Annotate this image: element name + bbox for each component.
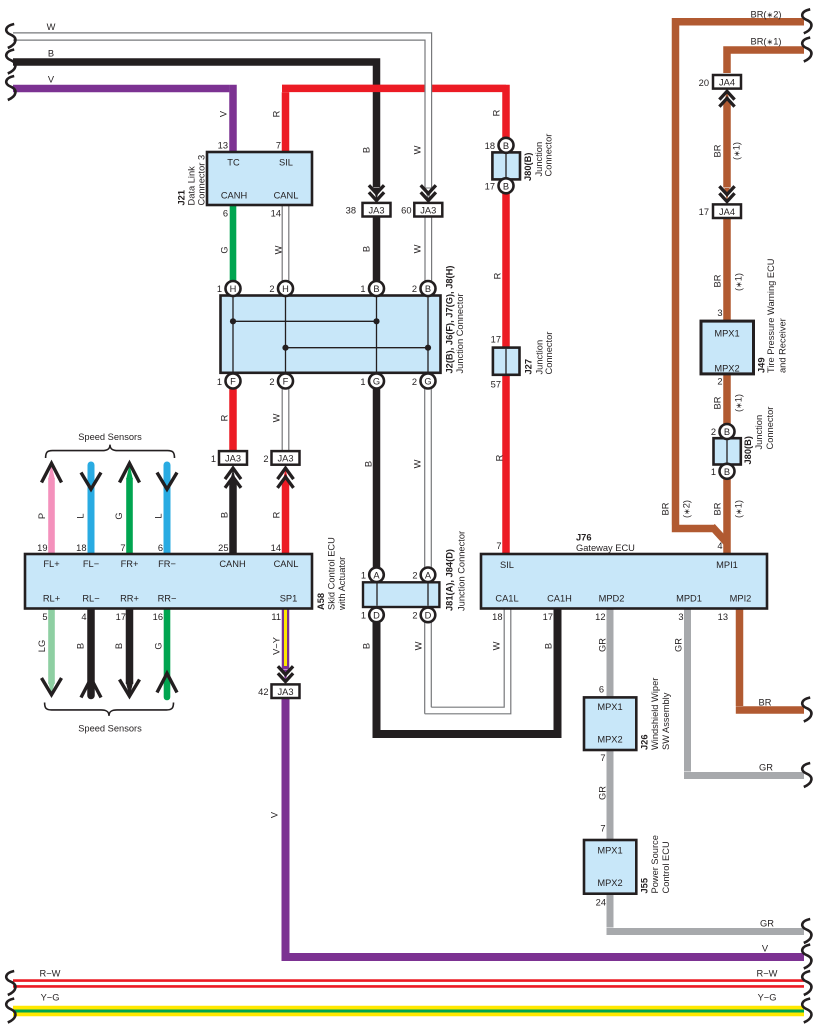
svg-text:7: 7 [276,141,281,151]
svg-text:F: F [230,377,236,387]
svg-text:J21: J21 [177,190,187,206]
svg-text:G: G [114,512,124,519]
svg-text:J80(B): J80(B) [523,153,533,181]
svg-text:Y−G: Y−G [758,993,777,1003]
svg-text:W: W [272,413,282,422]
svg-text:W: W [414,641,424,650]
svg-text:12: 12 [595,612,605,622]
svg-text:SIL: SIL [279,158,293,168]
svg-text:Connector: Connector [765,407,775,450]
svg-text:25: 25 [218,543,228,553]
svg-text:B: B [220,512,230,518]
svg-text:20: 20 [699,78,709,88]
svg-text:1: 1 [360,377,365,387]
svg-text:L: L [154,513,164,518]
svg-text:BR(∗2): BR(∗2) [751,10,782,20]
svg-text:R: R [220,414,230,421]
svg-text:Data Link: Data Link [187,166,197,206]
svg-text:TC: TC [227,158,240,168]
svg-text:Junction: Junction [535,340,545,375]
svg-text:R: R [493,272,503,279]
svg-text:2: 2 [269,377,274,387]
svg-text:J81(A), J84(D): J81(A), J84(D) [445,549,455,611]
svg-text:42: 42 [258,687,268,697]
svg-text:FR−: FR− [158,559,176,569]
svg-text:Skid Control ECU: Skid Control ECU [327,537,337,610]
svg-text:MPX1: MPX1 [714,329,739,339]
svg-text:H: H [282,284,289,294]
svg-text:B: B [362,147,372,153]
svg-text:(∗1): (∗1) [734,394,744,412]
svg-text:GR: GR [759,763,773,773]
svg-text:1: 1 [217,284,222,294]
svg-text:J55: J55 [640,878,650,894]
svg-text:2: 2 [412,284,417,294]
svg-text:and Receiver: and Receiver [778,318,788,373]
svg-text:FR+: FR+ [121,559,139,569]
svg-text:D: D [425,610,432,620]
svg-text:R: R [492,109,502,116]
svg-text:MPX1: MPX1 [597,702,622,712]
svg-text:Junction: Junction [754,415,764,450]
svg-text:W: W [413,459,423,468]
svg-text:18: 18 [492,612,502,622]
svg-text:RL−: RL− [82,594,99,604]
svg-text:18: 18 [76,543,86,553]
svg-text:2: 2 [412,377,417,387]
svg-text:FL+: FL+ [43,559,59,569]
svg-text:B: B [48,49,54,59]
svg-text:(∗2): (∗2) [682,500,692,518]
svg-text:RR+: RR+ [120,594,139,604]
svg-text:19: 19 [37,543,47,553]
svg-text:J27: J27 [524,359,534,375]
svg-text:CA1H: CA1H [547,594,572,604]
svg-text:6: 6 [158,543,163,553]
svg-text:14: 14 [271,543,281,553]
svg-text:MPX2: MPX2 [597,735,622,745]
svg-text:BR(∗1): BR(∗1) [751,36,782,46]
svg-text:F: F [283,377,289,387]
svg-text:SP1: SP1 [280,594,298,604]
svg-text:G: G [220,246,230,253]
svg-text:B: B [724,427,730,437]
svg-text:13: 13 [218,141,228,151]
svg-text:17: 17 [543,612,553,622]
svg-text:R: R [272,511,282,518]
svg-text:Windshield Wiper: Windshield Wiper [650,678,660,750]
svg-text:Tire Pressure Warning ECU: Tire Pressure Warning ECU [766,258,776,373]
svg-text:W: W [492,641,502,650]
svg-text:D: D [373,610,380,620]
svg-text:6: 6 [599,685,604,695]
svg-text:Connector 3: Connector 3 [197,155,207,206]
svg-text:CANL: CANL [274,559,299,569]
svg-text:2: 2 [717,377,722,387]
svg-text:CA1L: CA1L [495,594,518,604]
svg-text:Speed Sensors: Speed Sensors [78,432,142,442]
svg-text:2: 2 [412,610,417,620]
svg-text:B: B [362,643,372,649]
svg-text:V: V [219,110,229,117]
svg-text:B: B [724,467,730,477]
svg-text:18: 18 [485,141,495,151]
svg-text:GR: GR [674,638,684,652]
svg-text:7: 7 [496,541,501,551]
svg-text:H: H [230,284,237,294]
svg-text:BR: BR [713,396,723,409]
svg-text:60: 60 [401,206,411,216]
svg-text:Junction Connector: Junction Connector [455,293,465,373]
svg-text:A: A [373,570,380,580]
svg-text:2: 2 [412,570,417,580]
svg-text:BR: BR [660,502,670,515]
svg-text:4: 4 [81,612,86,622]
svg-text:Connector: Connector [544,134,554,177]
svg-text:BR: BR [713,274,723,287]
svg-text:P: P [37,513,47,519]
svg-text:V: V [270,811,280,818]
svg-text:GR: GR [598,638,608,652]
svg-text:B: B [544,643,554,649]
svg-text:13: 13 [718,612,728,622]
svg-text:W: W [413,145,423,154]
svg-text:3: 3 [717,308,722,318]
svg-text:GR: GR [598,786,608,800]
svg-text:1: 1 [217,377,222,387]
svg-text:2: 2 [269,284,274,294]
svg-text:B: B [76,643,86,649]
svg-text:L: L [76,513,86,518]
svg-text:MPX2: MPX2 [597,878,622,888]
svg-text:1: 1 [360,284,365,294]
svg-text:Control ECU: Control ECU [661,841,671,893]
svg-text:7: 7 [120,543,125,553]
svg-text:B: B [364,461,374,467]
svg-text:A58: A58 [316,593,326,610]
svg-text:Y−G: Y−G [41,993,60,1003]
svg-text:CANL: CANL [274,191,299,201]
svg-text:38: 38 [346,206,356,216]
svg-text:Gateway ECU: Gateway ECU [576,543,635,553]
svg-text:G: G [373,377,380,387]
svg-text:RR−: RR− [158,594,177,604]
svg-text:16: 16 [153,612,163,622]
svg-text:B: B [114,643,124,649]
svg-text:11: 11 [271,612,281,622]
svg-text:W: W [413,244,423,253]
svg-text:6: 6 [223,209,228,219]
svg-text:Speed Sensors: Speed Sensors [78,724,142,734]
svg-text:Power Source: Power Source [650,835,660,893]
svg-text:V−Y: V−Y [272,637,282,655]
svg-text:(∗1): (∗1) [732,142,742,160]
svg-text:1: 1 [711,467,716,477]
svg-text:G: G [154,642,164,649]
svg-text:1: 1 [361,610,366,620]
svg-text:(∗1): (∗1) [734,500,744,518]
svg-text:7: 7 [600,753,605,763]
svg-text:MPD1: MPD1 [676,594,702,604]
svg-text:B: B [425,284,431,294]
svg-text:CANH: CANH [221,191,247,201]
svg-text:MPD2: MPD2 [599,594,625,604]
svg-text:MPX1: MPX1 [597,846,622,856]
svg-text:V: V [48,75,55,85]
svg-text:R: R [272,110,282,117]
svg-text:V: V [762,944,769,954]
svg-text:17: 17 [491,335,501,345]
svg-text:Junction Connector: Junction Connector [457,531,467,611]
svg-text:J76: J76 [576,533,592,543]
svg-text:17: 17 [116,612,126,622]
svg-text:A: A [425,570,432,580]
svg-text:B: B [503,141,509,151]
svg-text:Junction: Junction [534,142,544,177]
svg-text:FL−: FL− [83,559,99,569]
svg-text:17: 17 [485,181,495,191]
svg-text:(∗1): (∗1) [734,273,744,291]
svg-text:24: 24 [596,898,606,908]
svg-text:SIL: SIL [500,560,514,570]
svg-text:B: B [503,181,509,191]
svg-text:Connector: Connector [544,332,554,375]
svg-text:14: 14 [271,209,281,219]
svg-text:MPI1: MPI1 [716,560,738,570]
svg-text:R−W: R−W [757,969,778,979]
svg-text:B: B [373,284,379,294]
svg-text:57: 57 [491,380,501,390]
svg-text:GR: GR [760,919,774,929]
svg-text:1: 1 [361,570,366,580]
svg-text:R−W: R−W [40,969,61,979]
svg-text:1: 1 [211,454,216,464]
svg-text:MPI2: MPI2 [730,594,752,604]
svg-text:J26: J26 [640,734,650,750]
svg-text:2: 2 [263,454,268,464]
svg-text:BR: BR [713,502,723,515]
svg-text:7: 7 [600,824,605,834]
svg-text:W: W [274,245,284,254]
svg-text:BR: BR [759,698,772,708]
svg-text:W: W [47,22,56,32]
svg-text:17: 17 [699,207,709,217]
svg-text:SW Assembly: SW Assembly [661,692,671,750]
svg-text:J49: J49 [757,357,767,373]
svg-text:MPX2: MPX2 [714,364,739,374]
svg-text:2: 2 [711,427,716,437]
svg-text:R: R [495,454,505,461]
svg-text:4: 4 [717,541,722,551]
svg-text:5: 5 [42,612,47,622]
svg-text:J80(B): J80(B) [743,436,753,464]
svg-text:B: B [362,246,372,252]
svg-text:LG: LG [37,640,47,652]
svg-text:with Actuator: with Actuator [337,557,347,611]
svg-text:3: 3 [678,612,683,622]
svg-text:BR: BR [713,144,723,157]
svg-text:RL+: RL+ [43,594,60,604]
svg-text:J2(B), J6(F), J7(G), J8(H): J2(B), J6(F), J7(G), J8(H) [445,266,455,374]
svg-text:G: G [424,377,431,387]
svg-text:CANH: CANH [219,559,245,569]
